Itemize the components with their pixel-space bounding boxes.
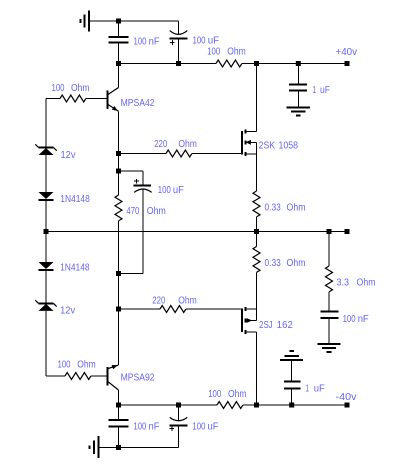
- wire R5 bottom lead: [256, 217, 258, 232]
- svg-text:uF: uF: [173, 184, 184, 196]
- junction 3.3 tap: [327, 229, 332, 234]
- junction C6 bottom: [289, 403, 294, 408]
- junction C2 bottom: [176, 61, 181, 66]
- terminal -40v: [345, 403, 350, 408]
- label R8 220 Ohm: [152, 294, 197, 306]
- svg-text:+40v: +40v: [336, 46, 358, 58]
- diode D3 1N4148: [39, 262, 54, 270]
- svg-text:Ohm: Ohm: [287, 257, 306, 269]
- svg-text:Ohm: Ohm: [228, 388, 247, 400]
- junction top ground: [116, 19, 121, 24]
- wire R9 right lead: [91, 375, 107, 377]
- junction source resistors: [254, 229, 259, 234]
- svg-text:1: 1: [306, 382, 310, 394]
- ground GND4 inverted above C6: [280, 351, 303, 360]
- wire 220 upper right lead to gate: [192, 153, 242, 155]
- svg-text:100: 100: [193, 34, 206, 46]
- wire left rail segment 5: [45, 311, 47, 376]
- wire C7 bottom lead: [118, 426, 120, 447]
- ground GND1 top-left (sideways): [80, 11, 89, 32]
- ground GND5 bottom-left (sideways): [90, 436, 99, 458]
- svg-text:1N4148: 1N4148: [60, 262, 90, 274]
- wire C3 top lead: [297, 64, 299, 85]
- label C2 100 uF: [193, 34, 220, 46]
- wire C1 top lead: [118, 21, 120, 37]
- zener D4 12v: [35, 300, 56, 311]
- svg-text:100: 100: [58, 358, 71, 370]
- wire R1 left lead: [46, 98, 60, 100]
- capacitor C8 100uF bottom electrolytic: [169, 417, 187, 431]
- transistor Q1 MPSA42: [108, 88, 119, 112]
- svg-text:1: 1: [313, 84, 317, 96]
- capacitor C4 100uF electrolytic: [134, 179, 152, 193]
- resistor R9 100 Ohm (Q2 base): [65, 373, 91, 380]
- wire left rail segment 4: [45, 270, 47, 304]
- wire R6 top lead: [256, 232, 258, 247]
- ground GND3 under C5: [318, 344, 341, 352]
- wire mid column junction link: [118, 154, 120, 172]
- diode D2 1N4148: [39, 192, 54, 200]
- resistor R4 470 Ohm: [115, 195, 122, 221]
- resistor R1 100 Ohm (Q1 base): [60, 95, 86, 102]
- label R7 3.3 Ohm: [337, 277, 376, 289]
- wire 220 lower left lead: [119, 308, 161, 310]
- svg-text:Ohm: Ohm: [287, 202, 306, 214]
- capacitor C1 100nF top: [109, 37, 129, 43]
- label M2 2SJ 162: [259, 319, 293, 331]
- junction C4 rejoin: [116, 271, 121, 276]
- wire mid column to Q2 emitter: [118, 309, 120, 365]
- svg-text:220: 220: [152, 294, 165, 306]
- label R9 100 Ohm: [58, 358, 96, 370]
- wire R7 bottom lead: [328, 292, 330, 312]
- junction Q2 collector rail: [116, 403, 121, 408]
- svg-text:nF: nF: [149, 420, 160, 432]
- wire C6 bottom lead: [291, 389, 293, 405]
- svg-text:uF: uF: [208, 420, 219, 432]
- wire +40V rail right part: [242, 63, 347, 65]
- svg-text:470: 470: [126, 205, 139, 217]
- svg-text:12v: 12v: [61, 149, 77, 161]
- wire C5 bottom lead: [328, 318, 330, 344]
- resistor R5 0.33 Ohm upper: [253, 191, 260, 217]
- wire R9 left lead: [46, 375, 65, 377]
- capacitor C7 100nF bottom: [109, 420, 129, 426]
- svg-text:220: 220: [154, 138, 167, 150]
- svg-text:Ohm: Ohm: [71, 82, 90, 94]
- label R4 470 Ohm: [126, 205, 166, 217]
- ground GND2 under C3: [287, 108, 310, 116]
- svg-text:2SJ: 2SJ: [259, 319, 273, 331]
- wire C4 branch horizontal: [119, 170, 144, 172]
- wire -40V rail left part: [119, 404, 218, 406]
- label R6 0.33 Ohm: [265, 257, 306, 269]
- resistor R6 0.33 Ohm lower: [253, 247, 260, 273]
- wire C7 top lead: [118, 405, 120, 420]
- svg-text:Ohm: Ohm: [178, 138, 197, 150]
- svg-text:-40v: -40v: [336, 391, 358, 403]
- capacitor C5 100nF right: [320, 312, 338, 318]
- svg-text:MPSA92: MPSA92: [121, 371, 155, 383]
- svg-text:0.33: 0.33: [265, 257, 281, 269]
- svg-text:100: 100: [133, 420, 146, 432]
- svg-text:1N4148: 1N4148: [60, 193, 90, 205]
- svg-text:1058: 1058: [279, 139, 299, 151]
- label C1 100 nF: [134, 36, 160, 48]
- svg-text:Ohm: Ohm: [77, 358, 96, 370]
- svg-text:100: 100: [134, 36, 147, 48]
- capacitor C6 1uF bottom: [284, 382, 300, 389]
- label R10 100 Ohm: [208, 388, 246, 400]
- svg-text:100: 100: [343, 313, 356, 325]
- transistor Q2 MPSA92: [108, 365, 119, 390]
- wire left rail segment 3: [45, 200, 47, 262]
- resistor R3 220 Ohm upper: [166, 150, 192, 157]
- label C7 100 nF: [133, 420, 159, 432]
- svg-text:12v: 12v: [60, 305, 76, 317]
- label R1 100 Ohm: [52, 82, 90, 94]
- svg-text:nF: nF: [149, 36, 160, 48]
- svg-text:Ohm: Ohm: [227, 46, 246, 58]
- label C4 100 uF: [158, 184, 184, 196]
- wire C3 bottom lead: [297, 90, 299, 107]
- label R5 0.33 Ohm: [265, 202, 306, 214]
- wire C4 top lead: [142, 171, 144, 186]
- svg-text:Ohm: Ohm: [357, 277, 376, 289]
- label R2 100 Ohm: [207, 46, 246, 58]
- wire R6 bottom lead / M2 source vertical: [256, 273, 258, 321]
- wire M1 source vertical: [256, 142, 258, 191]
- svg-text:uF: uF: [320, 84, 330, 96]
- wire R7 top lead: [328, 232, 330, 267]
- wire C4 rejoin horizontal: [119, 272, 144, 274]
- label C8 100 uF: [192, 420, 218, 432]
- svg-text:0.33: 0.33: [265, 202, 281, 214]
- wire C1 bottom lead: [118, 43, 120, 64]
- wire C8 bottom lead: [178, 426, 180, 448]
- terminal output: [345, 229, 350, 234]
- junction C4 branch: [116, 169, 121, 174]
- wire C6 top lead: [291, 360, 293, 382]
- wire Q1 emitter vertical: [118, 111, 120, 153]
- svg-text:2SK: 2SK: [259, 139, 276, 151]
- svg-text:100: 100: [208, 388, 221, 400]
- mosfet M1 2SK1058: [242, 130, 257, 156]
- label R3 220 Ohm: [154, 138, 197, 150]
- wire C4 bottom lead: [142, 189, 144, 274]
- svg-text:162: 162: [277, 319, 293, 331]
- wire 220 lower right lead to gate: [186, 308, 242, 310]
- wire 470 top lead: [118, 171, 120, 195]
- wire R1 right lead: [86, 98, 107, 100]
- wire left rail segment 1: [45, 99, 47, 148]
- junction M2 drain rail: [254, 403, 259, 408]
- svg-text:uF: uF: [208, 34, 220, 46]
- junction 220 lower tap: [116, 307, 121, 312]
- svg-text:100: 100: [52, 82, 65, 94]
- wire C2 top lead: [178, 21, 180, 34]
- label C5 100 nF: [343, 313, 369, 325]
- svg-text:Ohm: Ohm: [178, 294, 197, 306]
- resistor R10 100 Ohm (-40V rail): [217, 402, 243, 409]
- junction drain tap: [254, 61, 259, 66]
- label C3 1 uF: [313, 84, 331, 96]
- wire 220 upper left lead: [119, 153, 167, 155]
- svg-text:100: 100: [158, 184, 171, 196]
- wire C8 top lead: [178, 405, 180, 421]
- wire M2 drain vertical: [256, 332, 258, 405]
- resistor R7 3.3 Ohm: [326, 266, 333, 292]
- svg-text:100: 100: [192, 420, 205, 432]
- terminal +40v: [345, 61, 350, 66]
- wire 470 bottom lead: [118, 221, 120, 273]
- junction C3 tap: [296, 61, 301, 66]
- junction caps top rail left: [116, 61, 121, 66]
- svg-text:nF: nF: [358, 313, 369, 325]
- junction 220 upper tap: [116, 151, 121, 156]
- wire bottom ground rail: [98, 447, 178, 449]
- junction left rail output: [44, 229, 49, 234]
- svg-text:uF: uF: [314, 382, 325, 394]
- zener D1 12v: [35, 144, 56, 155]
- capacitor C3 1uF top: [289, 85, 307, 91]
- svg-text:MPSA42: MPSA42: [121, 97, 155, 109]
- wire -40V rail right part: [243, 404, 347, 406]
- junction bottom ground: [116, 445, 121, 450]
- resistor R8 220 Ohm lower: [160, 306, 186, 313]
- wire left rail segment 2: [45, 155, 47, 192]
- capacitor C2 100uF top electrolytic: [170, 31, 188, 45]
- wire Q1 collector vertical: [118, 64, 120, 88]
- wire M1 drain vertical: [256, 64, 258, 132]
- junction C8 top: [176, 403, 181, 408]
- wire output rail y=231.5: [46, 231, 347, 233]
- wire +40V rail left part: [119, 63, 217, 65]
- svg-text:3.3: 3.3: [337, 277, 350, 289]
- svg-text:Ohm: Ohm: [147, 205, 166, 217]
- svg-text:100: 100: [207, 46, 220, 58]
- wire top ground rail y=21: [89, 20, 179, 22]
- wire mid column to lower 220: [118, 273, 120, 309]
- wire Q2 collector vertical: [118, 390, 120, 405]
- label C6 1 uF: [306, 382, 325, 394]
- mosfet M2 2SJ162: [242, 307, 257, 334]
- wire C2 bottom lead: [178, 38, 180, 63]
- label M1 2SK 1058: [259, 139, 299, 151]
- resistor R2 100 Ohm (+40V rail): [216, 60, 242, 67]
